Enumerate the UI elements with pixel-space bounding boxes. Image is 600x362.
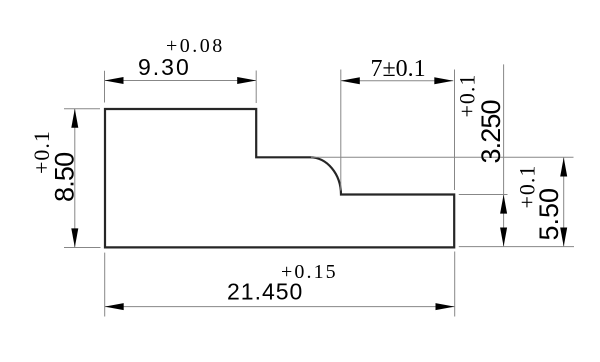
svg-text:+0.1: +0.1 bbox=[29, 130, 54, 174]
arrow 21.450 right bbox=[436, 303, 455, 310]
extension line 8.50 top bbox=[64, 108, 100, 110]
extension line 9.30 right bbox=[255, 71, 257, 104]
arrow 5.50 up bbox=[560, 158, 567, 177]
extension line lower ledge (3.250 top) bbox=[459, 194, 508, 196]
extension line 8.50 bottom bbox=[64, 247, 101, 249]
extension line upper ledge (5.50 top) bbox=[311, 156, 574, 158]
dimension line 7 bbox=[341, 80, 454, 82]
dimension line 5.50 bbox=[563, 158, 565, 247]
extension line 7 right bbox=[454, 70, 456, 191]
extension line bottom right (3.250/5.50 bottom) bbox=[459, 246, 574, 248]
arrow 8.50 up bbox=[71, 109, 78, 128]
extension line 7 left bbox=[340, 70, 342, 191]
svg-text:3.250: 3.250 bbox=[476, 100, 506, 163]
svg-text:+0.08: +0.08 bbox=[166, 35, 225, 57]
arrow 7 right bbox=[434, 77, 453, 84]
dimension line 21.450 bbox=[105, 306, 455, 308]
svg-text:9.30: 9.30 bbox=[138, 54, 191, 80]
arrow 9.30 right bbox=[237, 77, 256, 84]
extension line 21.450 left bbox=[104, 253, 106, 317]
arrow 8.50 down bbox=[71, 228, 78, 247]
arrow 3.250 up bbox=[500, 195, 507, 214]
svg-text:7±0.1: 7±0.1 bbox=[371, 56, 426, 82]
arrow 3.250 down bbox=[500, 228, 507, 247]
arrow 9.30 left bbox=[105, 77, 124, 84]
dimension line 9.30 bbox=[105, 80, 257, 82]
arrow 5.50 down bbox=[560, 228, 567, 247]
svg-text:+0.15: +0.15 bbox=[281, 261, 338, 283]
dimension line 8.50 bbox=[74, 109, 76, 248]
arrow 21.450 left bbox=[105, 303, 124, 310]
part outline profile bbox=[105, 109, 454, 247]
svg-text:+0.1: +0.1 bbox=[515, 165, 540, 209]
extension line 21.450 right bbox=[454, 252, 456, 317]
extension line 9.30 left bbox=[104, 71, 106, 103]
svg-text:+0.1: +0.1 bbox=[455, 74, 480, 118]
dimension line 3.250 (extended upward for text) bbox=[503, 64, 505, 246]
arrow 7 left bbox=[341, 77, 360, 84]
